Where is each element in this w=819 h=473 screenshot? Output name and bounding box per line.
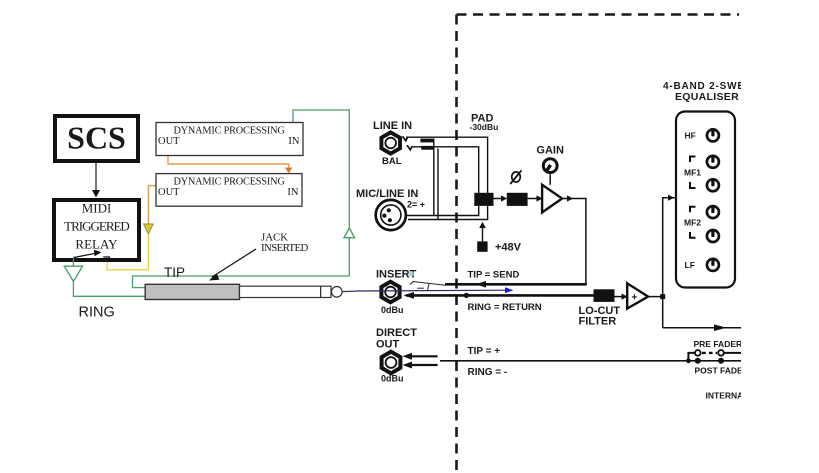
svg-text:LF: LF [685, 260, 695, 270]
svg-text:GAIN: GAIN [536, 144, 564, 156]
svg-text:IN: IN [288, 136, 299, 147]
svg-text:DYNAMIC PROCESSING: DYNAMIC PROCESSING [173, 177, 285, 188]
svg-text:MIDI: MIDI [82, 201, 112, 216]
svg-text:EQUALISER: EQUALISER [675, 91, 739, 103]
svg-text:OUT: OUT [376, 338, 400, 350]
svg-text:MIC/LINE IN: MIC/LINE IN [356, 188, 418, 200]
svg-text:0dBu: 0dBu [381, 305, 404, 315]
svg-text:RING = -: RING = - [468, 367, 508, 378]
svg-text:+48V: +48V [495, 241, 522, 253]
svg-text:TIP = SEND: TIP = SEND [468, 270, 520, 281]
svg-text:BAL: BAL [382, 156, 402, 167]
svg-text:2= +: 2= + [407, 199, 425, 209]
svg-text:MF1: MF1 [684, 167, 701, 177]
svg-text:FILTER: FILTER [579, 316, 617, 328]
svg-text:OUT: OUT [158, 187, 180, 198]
svg-text:RELAY: RELAY [75, 237, 118, 252]
svg-text:TIP = +: TIP = + [468, 346, 501, 357]
svg-text:PRE FADER: PRE FADER [694, 339, 743, 349]
svg-text:DYNAMIC PROCESSING: DYNAMIC PROCESSING [173, 126, 285, 137]
svg-text:HF: HF [685, 131, 696, 141]
svg-text:POST FADER: POST FADER [695, 365, 749, 375]
svg-text:MF2: MF2 [684, 218, 701, 228]
svg-text:+: + [632, 293, 638, 304]
svg-text:DIRECT: DIRECT [376, 327, 417, 339]
svg-text:-30dBu: -30dBu [470, 122, 499, 132]
svg-text:RING = RETURN: RING = RETURN [468, 302, 542, 313]
svg-text:RING: RING [79, 305, 115, 321]
svg-text:OUT: OUT [158, 136, 180, 147]
svg-text:TRIGGERED: TRIGGERED [64, 219, 129, 234]
svg-text:TIP: TIP [164, 265, 185, 280]
svg-text:SCS: SCS [67, 120, 126, 156]
svg-text:0dBu: 0dBu [381, 373, 404, 383]
svg-text:LINE IN: LINE IN [373, 120, 412, 132]
svg-text:IN: IN [287, 187, 298, 198]
svg-text:INSERTED: INSERTED [261, 242, 309, 254]
